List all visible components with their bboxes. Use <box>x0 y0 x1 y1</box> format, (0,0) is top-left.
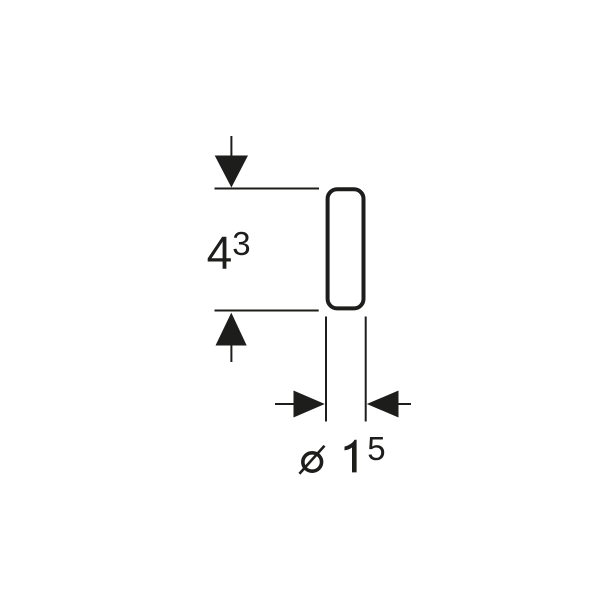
svg-text:5: 5 <box>367 430 385 467</box>
